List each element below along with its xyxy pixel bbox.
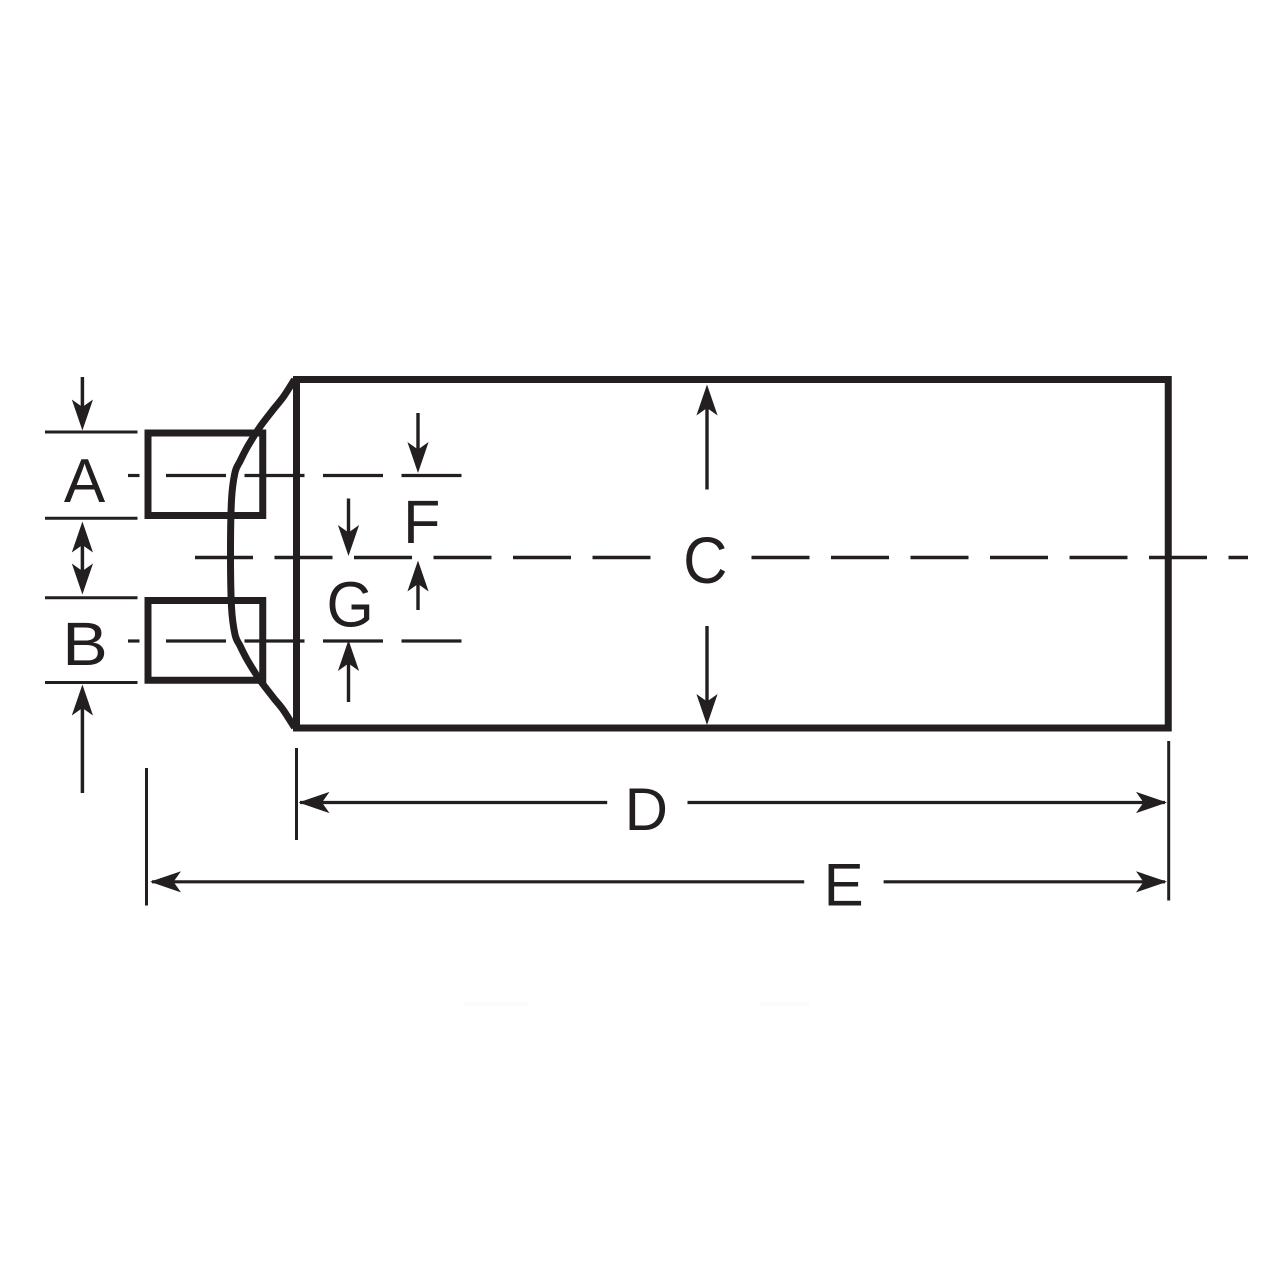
main centerline (dashed) <box>195 556 1248 559</box>
dim C arrows <box>705 408 708 703</box>
faint smudge left <box>464 1002 528 1007</box>
inlet pipe B <box>148 601 263 681</box>
svg-text:A: A <box>64 447 106 516</box>
pipe B centerline <box>128 639 462 642</box>
D extension lines <box>147 741 1169 906</box>
end cap arc <box>231 380 295 728</box>
dim A arrows <box>81 377 85 793</box>
faint smudge right <box>760 1002 809 1007</box>
labels <box>62 447 864 919</box>
dim D line <box>300 801 1165 804</box>
pipe A centerline <box>128 474 462 477</box>
dim F arrows <box>416 413 419 610</box>
svg-text:B: B <box>62 609 108 678</box>
svg-text:C: C <box>683 523 727 598</box>
muffler body outline <box>297 380 1169 729</box>
dim G arrows <box>347 499 350 703</box>
extension lines for A and B <box>45 432 138 683</box>
svg-text:D: D <box>625 776 668 843</box>
svg-text:E: E <box>824 852 864 919</box>
svg-text:G: G <box>326 569 373 641</box>
svg-text:F: F <box>403 488 440 556</box>
inlet pipe A <box>148 433 263 516</box>
dim E line <box>152 880 1165 883</box>
